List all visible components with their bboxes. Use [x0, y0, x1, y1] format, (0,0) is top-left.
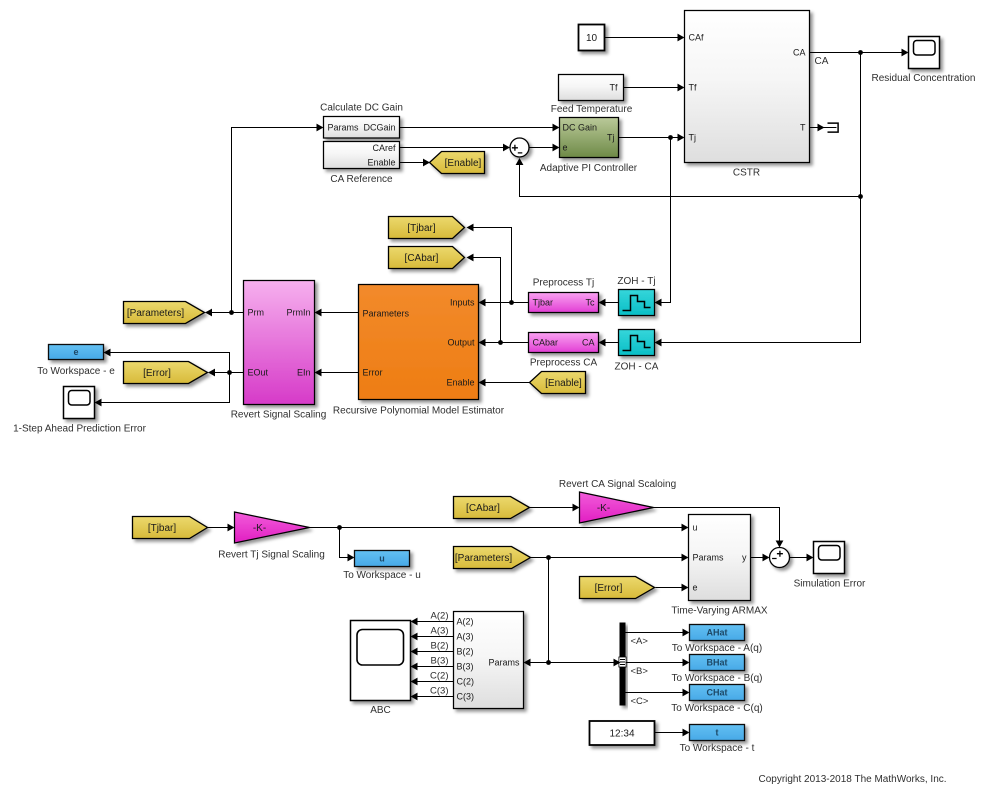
block ZOH - Tj — [617, 276, 655, 316]
svg-text:[CAbar]: [CAbar] — [405, 253, 439, 264]
wire Output branch to goto [CAbar] — [467, 254, 501, 343]
svg-text:Tc: Tc — [586, 298, 596, 308]
svg-text:To Workspace - e: To Workspace - e — [37, 366, 115, 377]
from tag [Enable] middle — [530, 372, 586, 394]
svg-text:Tj: Tj — [689, 133, 697, 143]
wire bus selector &lt;C&gt; to CHat — [626, 689, 690, 697]
subsystem CA Reference — [324, 142, 400, 186]
wire sum S1 to Adaptive PI e — [529, 144, 560, 152]
svg-text:y: y — [742, 553, 747, 563]
to-workspace block t — [680, 725, 755, 755]
from tag [Tjbar] lower — [133, 517, 208, 539]
wire Params branch down — [524, 558, 551, 667]
svg-text:B(3): B(3) — [431, 656, 449, 667]
svg-text:[Error]: [Error] — [595, 583, 623, 594]
svg-text:[Tjbar]: [Tjbar] — [407, 223, 436, 234]
goto tag [CAbar] upper — [389, 247, 465, 269]
svg-text:BHat: BHat — [706, 658, 727, 668]
sum junction S2 — [770, 548, 790, 568]
svg-text:ZOH - Tj: ZOH - Tj — [617, 276, 655, 287]
scope 1-Step Ahead Prediction Error — [13, 387, 147, 435]
wire branch to workspace u — [340, 528, 355, 562]
wire Revert EOut to goto [Error] — [208, 369, 244, 377]
wire CSTR CA to Residual Concentration scope — [810, 49, 909, 57]
goto tag [Parameters] left — [124, 302, 205, 324]
to-workspace block e — [37, 345, 115, 378]
svg-text:AHat: AHat — [706, 628, 727, 638]
svg-text:Tf: Tf — [689, 83, 697, 93]
svg-text:C(3): C(3) — [430, 686, 448, 697]
svg-text:To Workspace - B(q): To Workspace - B(q) — [672, 673, 763, 684]
svg-text:CA Reference: CA Reference — [330, 174, 393, 185]
svg-text:To Workspace - A(q): To Workspace - A(q) — [672, 643, 762, 654]
svg-text:EIn: EIn — [297, 368, 311, 378]
sum junction S1 — [510, 138, 529, 157]
svg-text:Tj: Tj — [607, 133, 615, 143]
wire Estimator Parameters to Revert PrmIn — [315, 309, 359, 317]
svg-text:CAf: CAf — [689, 33, 705, 43]
svg-text:To Workspace - t: To Workspace - t — [680, 743, 755, 754]
svg-text:DCGain: DCGain — [363, 123, 395, 133]
svg-text:12:34: 12:34 — [609, 729, 634, 740]
to-workspace block CHat — [671, 685, 763, 715]
svg-text:1-Step Ahead Prediction Error: 1-Step Ahead Prediction Error — [13, 424, 147, 435]
wire coefficient A(3) to ABC scope — [411, 633, 454, 641]
wire Inputs branch to goto [Tjbar] — [467, 224, 512, 303]
gain Revert Tj Signal Scaling — [218, 512, 325, 561]
svg-text:A(2): A(2) — [431, 611, 449, 622]
scope Simulation Error — [794, 542, 866, 590]
from tag [Parameters] lower — [454, 547, 531, 569]
svg-text:ZOH - CA: ZOH - CA — [615, 362, 659, 373]
svg-text:Params: Params — [328, 123, 360, 133]
wire CA Reference Enable to goto [Enable] — [400, 159, 431, 167]
wire Feed Temperature Tf to CSTR Tf — [624, 84, 685, 92]
from tag [Error] lower — [580, 577, 655, 599]
scope Residual Concentration — [872, 37, 976, 85]
svg-text:Revert Tj Signal Scaling: Revert Tj Signal Scaling — [218, 550, 325, 561]
subsystem Revert Signal Scaling — [231, 281, 327, 421]
wire CA branch down to ZOH - CA — [655, 53, 861, 347]
svg-text:Revert Signal Scaling: Revert Signal Scaling — [231, 410, 327, 421]
subsystem Adaptive PI Controller — [540, 118, 638, 175]
svg-text:To Workspace - u: To Workspace - u — [343, 570, 421, 581]
svg-text:[Enable]: [Enable] — [545, 378, 582, 389]
wire from [Tjbar] to gain — [208, 524, 235, 532]
svg-text:[Tjbar]: [Tjbar] — [148, 523, 177, 534]
svg-text:-K-: -K- — [253, 523, 266, 534]
wire Preprocess CA to Estimator Output — [479, 339, 529, 347]
constant block '10' — [579, 25, 605, 51]
svg-text:-K-: -K- — [597, 503, 610, 514]
svg-text:[Parameters]: [Parameters] — [455, 553, 512, 564]
svg-text:u: u — [379, 554, 385, 564]
svg-text:Calculate DC Gain: Calculate DC Gain — [320, 103, 403, 114]
svg-text:DC Gain: DC Gain — [563, 123, 598, 133]
svg-text:Preprocess CA: Preprocess CA — [530, 358, 598, 369]
svg-text:A(3): A(3) — [457, 632, 474, 642]
wire EOut branch to workspace e — [104, 349, 230, 373]
to-workspace block AHat — [672, 625, 762, 655]
svg-text:ABC: ABC — [370, 705, 391, 716]
wire clock to workspace t — [655, 729, 690, 737]
subsystem Calculate DC Gain — [320, 103, 403, 139]
wire CA feedback to sum S1 — [516, 158, 863, 199]
wire bus selector &lt;B&gt; to BHat — [626, 659, 690, 667]
wire gain to ARMAX u — [310, 524, 689, 532]
wire ZOH - Tj to Preprocess Tj — [599, 299, 619, 307]
svg-text:t: t — [716, 728, 719, 738]
svg-text:Recursive Polynomial Model Est: Recursive Polynomial Model Estimator — [333, 406, 505, 417]
wire from [Enable] to Estimator Enable — [479, 379, 530, 387]
svg-text:e: e — [693, 583, 698, 593]
bus selector bar — [619, 623, 626, 706]
svg-text:Feed Temperature: Feed Temperature — [551, 104, 633, 115]
svg-text:Params: Params — [693, 553, 725, 563]
svg-text:Tf: Tf — [610, 83, 618, 93]
svg-text:[Error]: [Error] — [143, 368, 171, 379]
svg-text:Adaptive PI Controller: Adaptive PI Controller — [540, 163, 638, 174]
svg-text:e: e — [73, 347, 78, 357]
to-workspace block u — [343, 551, 421, 582]
svg-text:A(3): A(3) — [431, 626, 449, 637]
svg-text:[Parameters]: [Parameters] — [127, 308, 184, 319]
wire coefficient C(3) to ABC scope — [411, 693, 454, 701]
wire ZOH - CA to Preprocess CA — [599, 339, 619, 347]
to-workspace block BHat — [672, 655, 763, 685]
svg-text:To Workspace - C(q): To Workspace - C(q) — [671, 703, 763, 714]
block ZOH - CA — [615, 330, 659, 373]
goto tag [Enable] — [430, 152, 485, 174]
svg-text:Output: Output — [447, 338, 475, 348]
wire CSTR T to terminator — [810, 124, 837, 132]
block Recursive Polynomial Model Estimator — [333, 285, 505, 417]
wire CAref to sum S1 — [400, 144, 511, 152]
svg-text:CA: CA — [815, 56, 829, 67]
svg-text:Residual Concentration: Residual Concentration — [872, 73, 976, 84]
svg-text:A(2): A(2) — [457, 617, 474, 627]
wire from [Error] to ARMAX e — [656, 584, 689, 592]
svg-text:PrmIn: PrmIn — [286, 308, 310, 318]
svg-text:Copyright 2013-2018 The MathWo: Copyright 2013-2018 The MathWorks, Inc. — [758, 774, 946, 785]
wire Adaptive PI Tj to CSTR Tj — [619, 134, 685, 142]
wire Prm feedback to Calculate DC Gain Params — [232, 124, 324, 313]
subsystem Preprocess Tj — [529, 278, 599, 313]
wire Preprocess Tj to Estimator Inputs — [479, 299, 529, 307]
svg-text:Inputs: Inputs — [450, 298, 475, 308]
svg-text:Enable: Enable — [446, 378, 474, 388]
clock block 12:34 — [590, 721, 655, 745]
wire DCGain to Adaptive PI DC Gain — [400, 124, 560, 132]
svg-text:Error: Error — [363, 368, 383, 378]
svg-text:C(3): C(3) — [457, 692, 475, 702]
wire coefficient C(2) to ABC scope — [411, 678, 454, 686]
svg-text:10: 10 — [586, 33, 598, 44]
svg-text:CA: CA — [793, 48, 806, 58]
wire Revert Prm to goto [Parameters] — [205, 309, 244, 317]
wire Constant 10 to CSTR CAf — [605, 34, 685, 42]
wire Estimator Error to Revert EIn — [315, 369, 359, 377]
wire ARMAX y to sum S2 — [751, 554, 770, 562]
svg-text:u: u — [693, 523, 698, 533]
svg-text:C(2): C(2) — [457, 677, 475, 687]
gain Revert CA Signal Scaloing — [559, 479, 676, 523]
svg-text:e: e — [563, 143, 568, 153]
svg-text:T: T — [800, 123, 806, 133]
svg-text:Simulation Error: Simulation Error — [794, 579, 866, 590]
svg-text:C(2): C(2) — [430, 671, 448, 682]
svg-text:Parameters: Parameters — [363, 309, 410, 319]
svg-text:CSTR: CSTR — [733, 168, 760, 179]
svg-text:B(2): B(2) — [431, 641, 449, 652]
scope ABC — [351, 621, 411, 717]
svg-text:<C>: <C> — [631, 696, 649, 707]
svg-text:Enable: Enable — [367, 158, 395, 168]
svg-text:Params: Params — [488, 658, 520, 668]
subsystem Feed Temperature — [551, 75, 633, 116]
svg-text:EOut: EOut — [248, 368, 269, 378]
wire Tj branch to ZOH - Tj — [655, 138, 671, 307]
svg-text:[Enable]: [Enable] — [445, 158, 482, 169]
wire coefficient B(3) to ABC scope — [411, 663, 454, 671]
svg-text:B(2): B(2) — [457, 647, 474, 657]
svg-text:CAbar: CAbar — [533, 338, 559, 348]
svg-text:Revert CA Signal Scaloing: Revert CA Signal Scaloing — [559, 479, 676, 490]
svg-text:<B>: <B> — [631, 666, 649, 677]
svg-text:Prm: Prm — [248, 308, 265, 318]
wire from [CAbar] to CA gain — [530, 504, 580, 512]
svg-text:CAref: CAref — [372, 143, 396, 153]
svg-text:Tjbar: Tjbar — [533, 298, 554, 308]
wire EOut branch to prediction error scope — [95, 373, 230, 407]
goto tag [Error] left — [124, 362, 208, 384]
svg-text:Preprocess Tj: Preprocess Tj — [533, 278, 595, 289]
subsystem polynomial coefficients A(2)..C(3) — [454, 612, 524, 709]
wire sum S2 to Simulation Error scope — [790, 554, 814, 562]
svg-text:<A>: <A> — [631, 636, 649, 647]
block Time-Varying ARMAX — [671, 515, 767, 617]
subsystem Preprocess CA — [529, 333, 599, 369]
wire bus selector &lt;A&gt; to AHat — [626, 629, 690, 637]
svg-text:[CAbar]: [CAbar] — [466, 503, 500, 514]
goto tag [Tjbar] upper — [389, 217, 465, 239]
wire from [Parameters] to ARMAX Params — [531, 554, 689, 562]
wire Params branch to bus selector — [549, 659, 621, 667]
wire coefficient A(2) to ABC scope — [411, 618, 454, 626]
svg-text:CA: CA — [582, 338, 595, 348]
svg-text:Time-Varying ARMAX: Time-Varying ARMAX — [671, 606, 767, 617]
wire CA gain to sum S2 — [654, 508, 784, 548]
wire coefficient B(2) to ABC scope — [411, 648, 454, 656]
svg-text:B(3): B(3) — [457, 662, 474, 672]
svg-text:CHat: CHat — [706, 688, 727, 698]
subsystem CSTR — [685, 11, 810, 179]
from tag [CAbar] lower — [454, 497, 530, 519]
terminator on CSTR T output — [828, 123, 839, 132]
